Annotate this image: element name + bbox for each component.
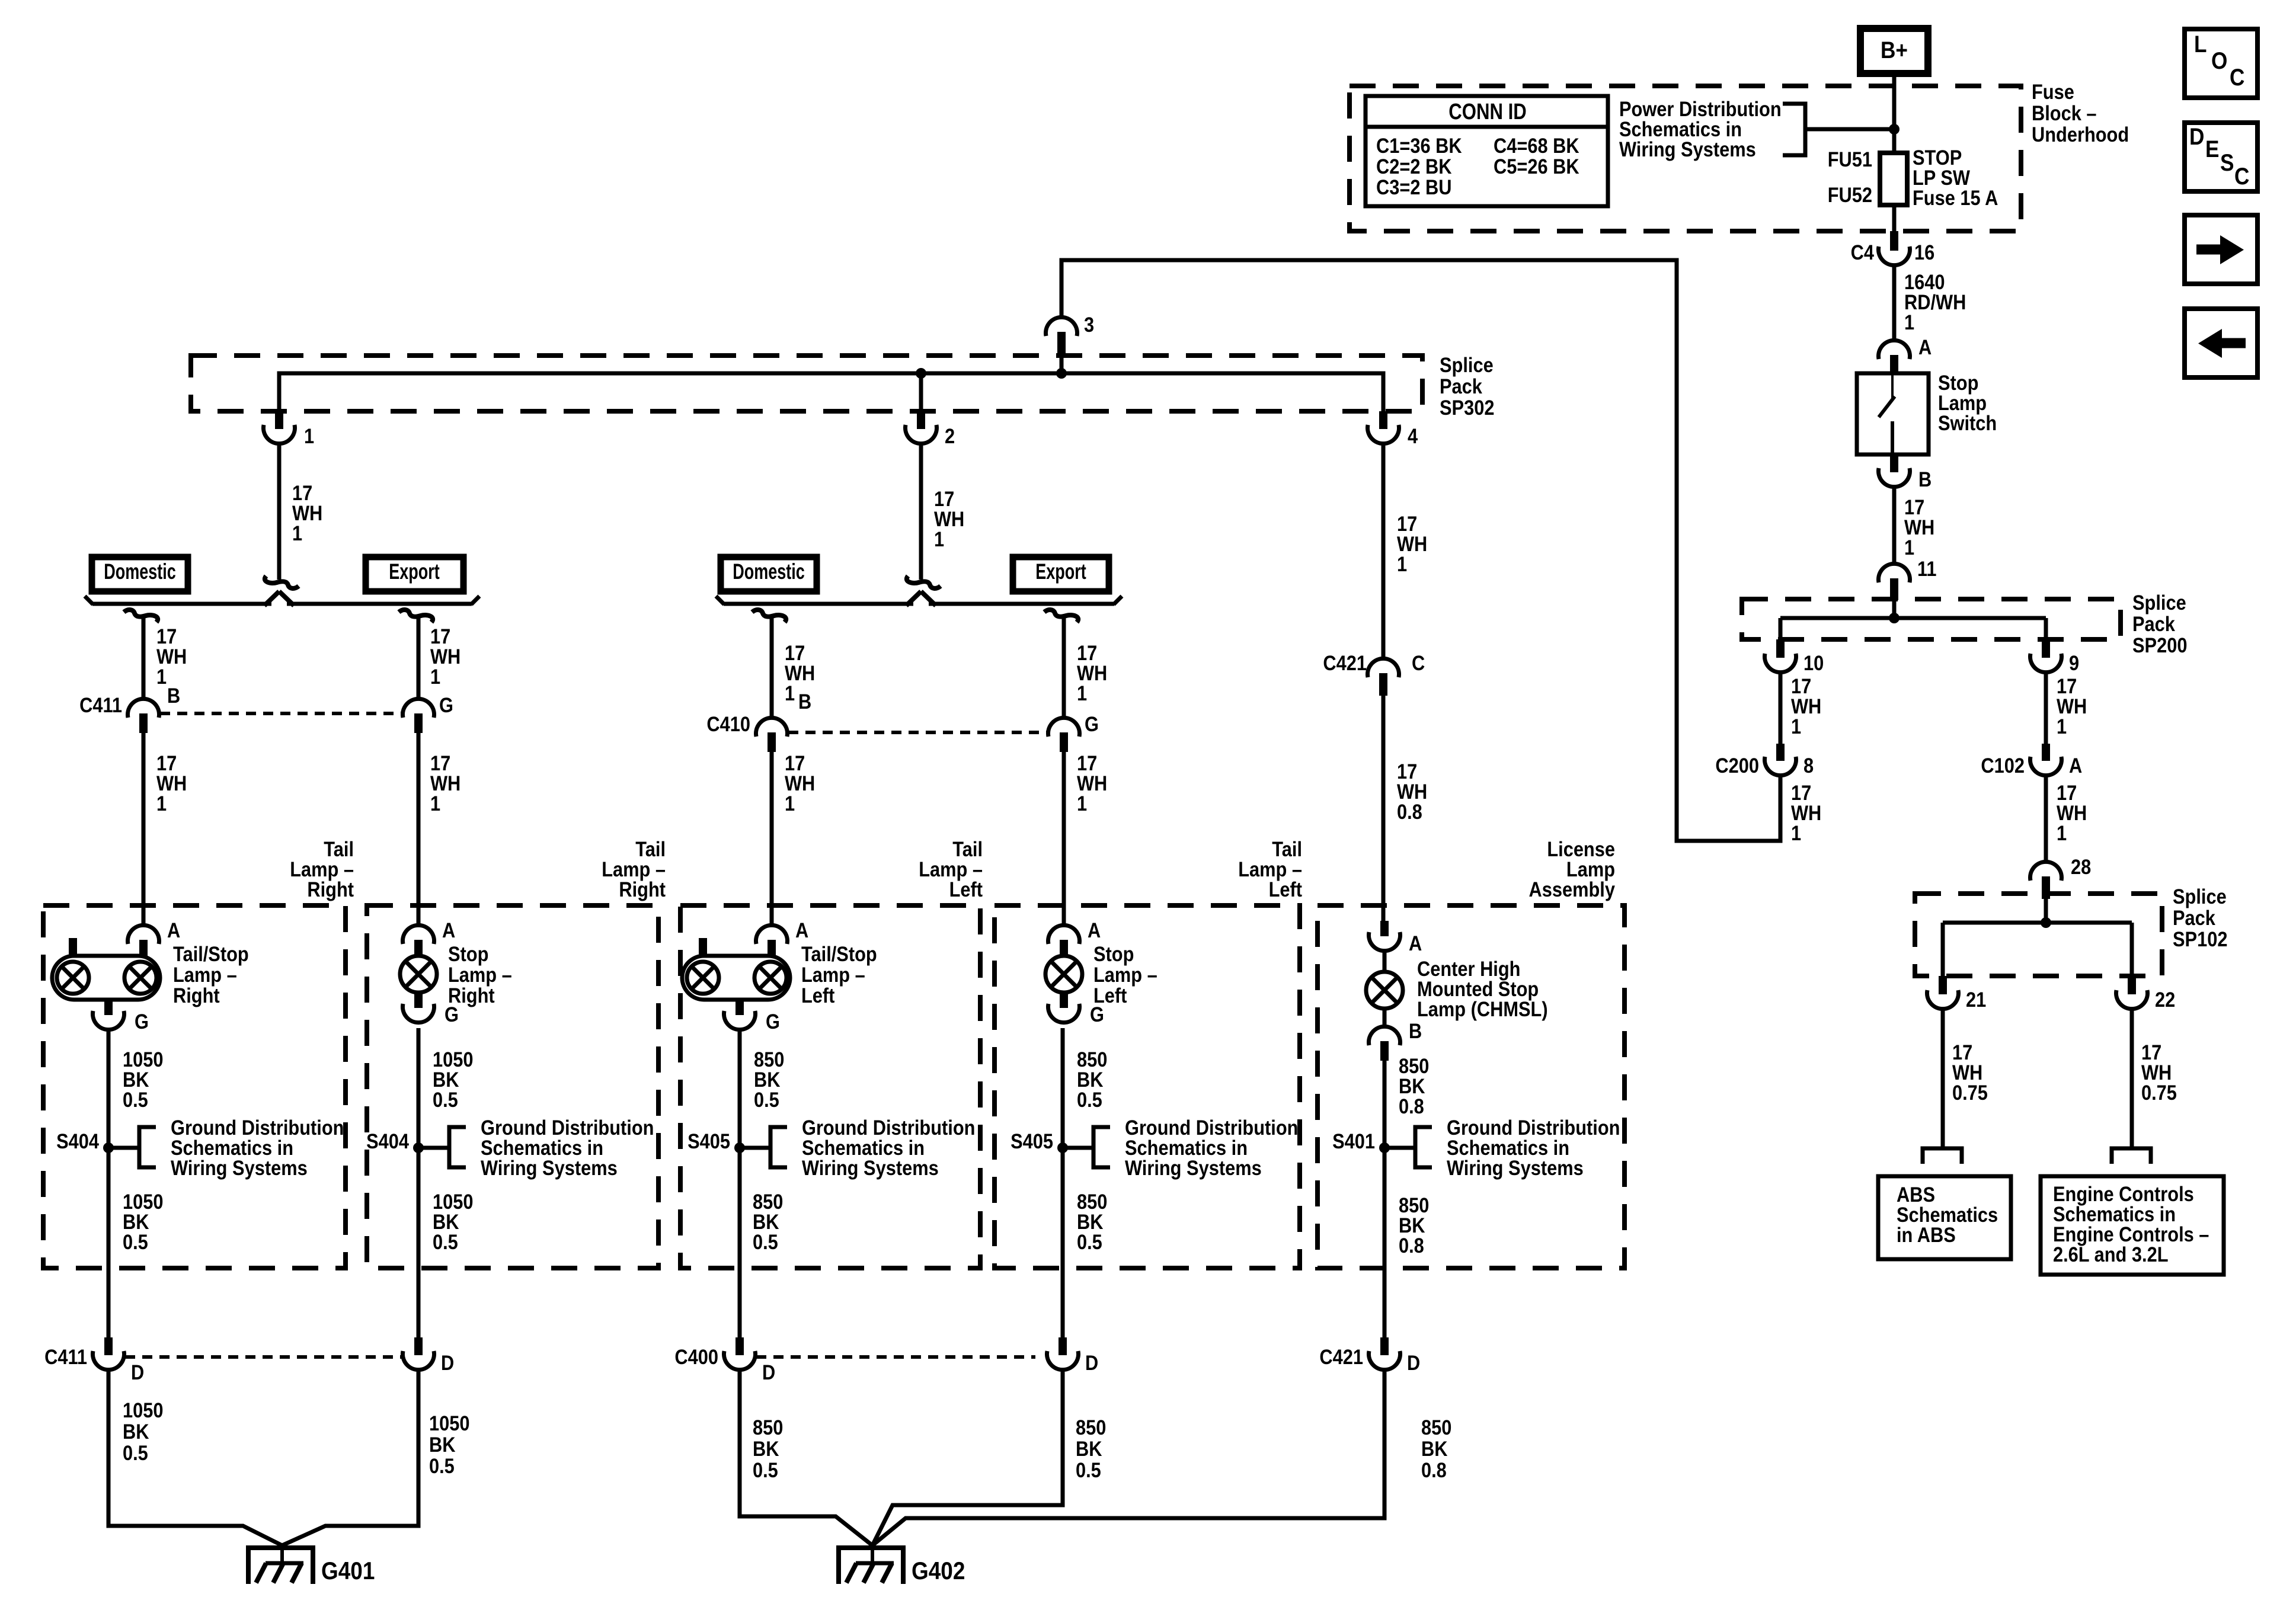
label FU51 — [1828, 148, 1872, 171]
label 17 WH 1 switch output — [1904, 495, 1934, 559]
wire C421 to CHMSL — [1382, 696, 1386, 922]
connector 28 into SP102 — [2030, 862, 2062, 899]
svg-text:BK: BK — [1421, 1437, 1448, 1460]
svg-text:Domestic: Domestic — [733, 559, 805, 584]
svg-text:1: 1 — [934, 527, 944, 550]
label 17 WH 1 below C410 B — [785, 751, 815, 815]
label 850 BK 0.8 lower box5 — [1399, 1193, 1429, 1257]
svg-text:1: 1 — [2057, 715, 2067, 738]
dual filament bulb tail/stop lamp right — [52, 956, 160, 1000]
wire domestic1 to C411 B — [142, 617, 146, 699]
connector A of stop lamp right — [403, 925, 434, 956]
stub terminal of tail/stop lamp left — [699, 938, 707, 956]
curl wire 1 end — [265, 576, 299, 588]
svg-text:0.5: 0.5 — [1077, 1088, 1102, 1111]
tab to engine controls schematics — [2112, 1148, 2151, 1164]
svg-text:Block –: Block – — [2032, 101, 2097, 124]
connector D export left — [1047, 1337, 1079, 1370]
connector C200 pin 8 — [1765, 744, 1796, 776]
svg-text:A: A — [1088, 918, 1101, 942]
hook wire export 1 — [399, 610, 433, 622]
label B C410 — [798, 690, 811, 713]
license lamp assembly dashed box — [1318, 905, 1625, 1268]
svg-text:BK: BK — [1076, 1437, 1102, 1460]
svg-text:G: G — [439, 693, 453, 716]
dashed link C411 D — [125, 1355, 404, 1359]
svg-text:S: S — [2220, 149, 2234, 176]
connector 3 into SP302 — [1046, 317, 1077, 373]
label 17 WH 1 ckt10 — [1791, 674, 1821, 738]
legend DESC box — [2185, 123, 2257, 191]
svg-text:Right: Right — [307, 878, 354, 901]
svg-text:Tail/Stop: Tail/Stop — [801, 942, 877, 965]
label G lamp stop lamp left — [1090, 1003, 1104, 1026]
label Engine Controls Schematics — [2053, 1182, 2209, 1266]
splice S405 — [1057, 1127, 1110, 1167]
alternative brace pair 2 — [716, 591, 1122, 606]
svg-text:C4: C4 — [1851, 241, 1875, 264]
wire box1 to C411 D — [107, 1148, 111, 1337]
label 17 WH 1 ckt4 — [1397, 512, 1427, 575]
label Fuse Block - Underhood — [2032, 80, 2129, 146]
splice pack SP200 dashed box — [1742, 599, 2121, 639]
svg-text:1: 1 — [156, 792, 167, 815]
connector A of stop lamp switch — [1879, 340, 1910, 373]
svg-text:SP200: SP200 — [2132, 633, 2187, 657]
dashed link C410 — [788, 731, 1047, 734]
label ABS Schematics in ABS — [1897, 1183, 1998, 1246]
label 11 — [1917, 557, 1937, 580]
label 21 — [1966, 988, 1986, 1011]
label G C411 — [439, 693, 453, 716]
connector C411 cavity D — [93, 1337, 124, 1370]
label 16 — [1914, 241, 1934, 264]
svg-text:1: 1 — [785, 792, 795, 815]
svg-text:D: D — [2189, 123, 2204, 150]
svg-text:1: 1 — [1077, 681, 1087, 705]
label S405 — [1011, 1129, 1053, 1153]
wire 10 to C200 — [1779, 673, 1783, 744]
svg-text:1: 1 — [1791, 715, 1801, 738]
svg-text:Lamp –: Lamp – — [801, 963, 865, 986]
label A CHMSL — [1409, 932, 1422, 955]
label Splice Pack SP302 — [1440, 353, 1494, 419]
svg-text:1: 1 — [430, 665, 440, 688]
label S405 — [687, 1129, 730, 1153]
svg-text:CONN ID: CONN ID — [1448, 100, 1527, 124]
wire C410 B to tail lamp left — [770, 752, 774, 926]
splice SP200 bus wire — [1780, 600, 2046, 639]
connector C421 cavity D — [1369, 1337, 1400, 1370]
svg-text:16: 16 — [1914, 241, 1934, 264]
svg-text:1: 1 — [304, 424, 314, 447]
svg-text:850: 850 — [1421, 1416, 1451, 1439]
label ground distribution note box2 — [481, 1116, 654, 1179]
svg-text:SP302: SP302 — [1440, 396, 1494, 419]
svg-text:3: 3 — [1084, 313, 1094, 336]
svg-text:C1=36 BK: C1=36 BK — [1376, 134, 1462, 157]
junction node SP302 at 3 — [1056, 368, 1067, 379]
svg-text:1050: 1050 — [123, 1398, 163, 1422]
label C421 C — [1323, 651, 1425, 674]
splice pack SP302 dashed box — [191, 356, 1422, 411]
label G401 — [321, 1557, 375, 1585]
svg-text:Stop: Stop — [448, 942, 488, 965]
wire into splice pack connector 3 — [0, 0, 1, 1]
svg-text:Splice: Splice — [2173, 885, 2227, 908]
label 17 WH 1 dom2 — [785, 641, 815, 705]
connector pin 10 — [1765, 639, 1796, 673]
svg-text:Pack: Pack — [1440, 375, 1483, 398]
svg-text:G: G — [135, 1010, 149, 1033]
svg-text:C411: C411 — [44, 1345, 87, 1368]
label A tail/stop lamp left — [795, 918, 808, 942]
connector A of CHMSL — [1369, 921, 1400, 951]
wire 21 to ABS — [1941, 1009, 1945, 1148]
connector D export right — [403, 1337, 434, 1370]
svg-text:C411: C411 — [79, 693, 122, 716]
connector pin 2 — [906, 411, 937, 444]
svg-text:S401: S401 — [1332, 1129, 1375, 1153]
label D exp left — [1085, 1351, 1098, 1374]
wire 2 to brace — [919, 444, 923, 580]
label name stop lamp right — [448, 942, 512, 1007]
label B CHMSL — [1409, 1019, 1422, 1042]
wire box1 lamp to splice — [107, 1028, 111, 1148]
svg-text:C102: C102 — [1981, 754, 2025, 777]
svg-text:Wiring Systems: Wiring Systems — [1619, 137, 1756, 161]
svg-text:A: A — [795, 918, 808, 942]
label 17 WH 1 below C411 B — [156, 751, 187, 815]
svg-text:0.75: 0.75 — [2141, 1081, 2177, 1104]
fuse block dashed box — [1350, 86, 2021, 231]
svg-text:B+: B+ — [1881, 37, 1908, 63]
label C411 — [79, 693, 122, 716]
label Splice Pack SP200 — [2132, 591, 2187, 657]
bulb stop lamp right — [400, 956, 437, 993]
svg-text:G401: G401 — [321, 1557, 375, 1585]
label Tail Lamp Right 2 — [602, 837, 666, 901]
wire junction to power distribution bracket — [1805, 127, 1894, 132]
svg-text:Wiring Systems: Wiring Systems — [1447, 1156, 1584, 1179]
label Center High Mounted Stop Lamp — [1417, 957, 1548, 1020]
svg-text:1: 1 — [1904, 536, 1914, 559]
svg-text:B: B — [167, 684, 180, 707]
connector pin 4 — [1368, 411, 1399, 444]
table row C1=36 BK — [1376, 134, 1462, 157]
svg-text:Lamp –: Lamp – — [448, 963, 512, 986]
label 1640 RD/WH 1 — [1904, 270, 1966, 334]
svg-text:B: B — [1409, 1019, 1422, 1042]
svg-text:0.8: 0.8 — [1399, 1234, 1424, 1257]
label 17 WH 1 ckt8 — [1791, 781, 1821, 844]
svg-text:D: D — [441, 1351, 454, 1374]
svg-text:G: G — [1090, 1003, 1104, 1026]
legend forward arrow box — [2185, 215, 2257, 284]
svg-text:G: G — [766, 1010, 780, 1033]
svg-text:8: 8 — [1803, 754, 1814, 777]
label Tail Lamp Right 1 — [290, 837, 354, 901]
svg-text:0.5: 0.5 — [433, 1230, 458, 1253]
svg-text:Assembly: Assembly — [1529, 878, 1616, 901]
connector pin 9 — [2030, 639, 2062, 673]
label D c400 — [762, 1361, 775, 1384]
label ground distribution note box1 — [171, 1116, 344, 1179]
svg-text:1: 1 — [1077, 792, 1087, 815]
label 8 — [1803, 754, 1814, 777]
label A — [1918, 335, 1932, 359]
connector G of stop lamp left — [1048, 993, 1080, 1023]
label B — [1918, 468, 1932, 491]
junction node on B+ feed — [1889, 124, 1900, 135]
connector G of tail/stop lamp right — [93, 1000, 124, 1030]
svg-text:Lamp –: Lamp – — [173, 963, 237, 986]
svg-text:28: 28 — [2071, 855, 2091, 878]
connector C411 cavity B — [128, 699, 159, 733]
svg-text:1: 1 — [2057, 821, 2067, 844]
wire box5 to C421 D — [1383, 1148, 1387, 1337]
option box Export 1 — [366, 557, 463, 591]
connector A of tail/stop lamp left — [756, 925, 788, 956]
svg-text:0.5: 0.5 — [433, 1088, 458, 1111]
label G lamp stop lamp right — [445, 1003, 459, 1026]
svg-text:4: 4 — [1408, 424, 1418, 447]
CONN ID table — [1366, 96, 1608, 206]
label ground distribution note box3 — [802, 1116, 975, 1179]
svg-text:0.5: 0.5 — [429, 1454, 455, 1477]
wire C411 G to stop lamp right — [417, 733, 421, 926]
splice S401 — [1379, 1127, 1432, 1167]
bracket to Power Distribution note — [1783, 104, 1805, 155]
svg-text:C: C — [2234, 163, 2249, 190]
connector C4 pin 16 — [1879, 231, 1910, 265]
svg-text:11: 11 — [1917, 557, 1937, 580]
battery feed B+ terminal — [1860, 28, 1928, 73]
label name stop lamp left — [1093, 942, 1157, 1007]
label Stop Lamp Switch — [1938, 371, 1997, 434]
label C411 D — [44, 1345, 87, 1368]
svg-text:0.5: 0.5 — [1077, 1230, 1102, 1253]
CHMSL bulb — [1366, 972, 1403, 1009]
wire switch B to splice pack — [1892, 487, 1897, 564]
ground G402 — [839, 1545, 903, 1584]
svg-text:Switch: Switch — [1938, 411, 1997, 434]
label Tail Lamp Left 2 — [1238, 837, 1302, 901]
label 17 WH 0.75 ckt21 — [1952, 1041, 1988, 1104]
svg-text:Left: Left — [801, 984, 834, 1007]
label G402 — [912, 1557, 965, 1585]
wire C411 B to tail lamp right — [142, 733, 146, 926]
label name tail/stop lamp left — [801, 942, 877, 1007]
wire 1 to brace — [277, 444, 282, 580]
svg-text:C421: C421 — [1319, 1345, 1363, 1368]
svg-text:0.8: 0.8 — [1399, 1094, 1424, 1118]
label 2 — [945, 424, 955, 447]
svg-text:C: C — [2230, 64, 2244, 91]
svg-text:BK: BK — [753, 1437, 779, 1460]
table row C3=2 BU — [1376, 175, 1451, 199]
tail lamp left export dashed box — [994, 905, 1300, 1268]
svg-text:D: D — [1407, 1351, 1420, 1374]
engine controls schematics box — [2041, 1176, 2224, 1275]
svg-text:Wiring Systems: Wiring Systems — [481, 1156, 618, 1179]
svg-text:Wiring Systems: Wiring Systems — [1125, 1156, 1262, 1179]
label ground distribution note box5 — [1447, 1116, 1620, 1179]
svg-text:C421: C421 — [1323, 651, 1367, 674]
junction node SP200 — [1889, 613, 1900, 623]
svg-text:1: 1 — [1904, 311, 1914, 334]
wire C411 D to G401 — [108, 1370, 282, 1545]
tail lamp left domestic dashed box — [680, 905, 980, 1268]
svg-text:S405: S405 — [687, 1129, 730, 1153]
table row C2=2 BK — [1376, 155, 1452, 178]
svg-text:C3=2 BU: C3=2 BU — [1376, 175, 1451, 199]
connector pin 1 — [264, 411, 295, 444]
svg-text:1050: 1050 — [429, 1411, 469, 1435]
label 17 WH 0.8 — [1397, 760, 1427, 823]
svg-text:B: B — [798, 690, 811, 713]
svg-text:0.5: 0.5 — [753, 1230, 778, 1253]
wire C421 D to G402 — [872, 1370, 1384, 1545]
svg-text:Export: Export — [389, 559, 440, 584]
wire 1640 RD/WH — [1892, 265, 1897, 341]
svg-text:0.5: 0.5 — [123, 1230, 148, 1253]
label 17 WH 1 ckt A — [2057, 781, 2087, 844]
svg-text:Tail/Stop: Tail/Stop — [173, 942, 249, 965]
svg-text:in ABS: in ABS — [1897, 1223, 1956, 1246]
svg-text:Left: Left — [949, 878, 983, 901]
wire D to G401 — [282, 1370, 418, 1545]
wire C410 G to stop lamp left — [1062, 752, 1066, 926]
wire B+ to fuse FU51 — [1892, 73, 1897, 153]
label name tail/stop lamp right — [173, 942, 249, 1007]
label G lamp tail/stop lamp right — [135, 1010, 149, 1033]
svg-text:C410: C410 — [706, 712, 750, 735]
label 17 WH 1 ckt9 — [2057, 674, 2087, 738]
label C200 — [1715, 754, 1759, 777]
label Splice Pack SP102 — [2173, 885, 2227, 950]
label G C410 — [1085, 712, 1099, 735]
svg-text:O: O — [2211, 47, 2227, 74]
svg-text:Splice: Splice — [2132, 591, 2186, 614]
connector C411 cavity G — [403, 699, 434, 733]
svg-text:S405: S405 — [1011, 1129, 1053, 1153]
wire box4 to D — [1061, 1148, 1065, 1337]
svg-text:S404: S404 — [366, 1129, 410, 1153]
label STOP LP SW Fuse 15 A — [1913, 146, 1998, 209]
connector B of CHMSL — [1369, 1009, 1400, 1061]
option box Export 2 — [1013, 557, 1109, 591]
label 17 WH 1 ckt2 — [934, 487, 964, 550]
connector C410 cavity G — [1048, 718, 1080, 752]
svg-text:C200: C200 — [1715, 754, 1759, 777]
wire box4 lamp to splice — [1061, 1028, 1065, 1148]
label 3 — [1084, 313, 1094, 336]
splice S404 — [413, 1127, 466, 1167]
label 850 BK 0.5 bottom box3 — [753, 1416, 783, 1481]
svg-text:Right: Right — [173, 984, 220, 1007]
label C400 — [674, 1345, 718, 1368]
tail lamp right domestic dashed box — [43, 905, 346, 1268]
label Power Distribution Schematics in Wiring Systems — [1619, 97, 1782, 161]
svg-text:C2=2 BK: C2=2 BK — [1376, 155, 1452, 178]
svg-text:L: L — [2194, 31, 2207, 57]
connector pin 22 — [2116, 976, 2148, 1009]
label 9 — [2069, 651, 2079, 674]
splice S405 — [734, 1127, 787, 1167]
label 10 — [1803, 651, 1824, 674]
hook wire domestic 1 — [124, 610, 158, 622]
stub terminal of tail/stop lamp right — [69, 938, 77, 956]
label l — [754, 1048, 784, 1111]
svg-text:850: 850 — [753, 1416, 783, 1439]
svg-text:C5=26 BK: C5=26 BK — [1494, 155, 1579, 178]
label D c411 — [131, 1361, 144, 1384]
connector pin 21 — [1927, 976, 1959, 1009]
label 1050 BK 0.5 lower box2 — [433, 1190, 473, 1253]
svg-text:Lamp (CHMSL): Lamp (CHMSL) — [1417, 997, 1548, 1020]
svg-text:D: D — [762, 1361, 775, 1384]
connector C102 pin A — [2030, 744, 2062, 776]
label A tail/stop lamp right — [167, 918, 180, 942]
svg-text:C400: C400 — [674, 1345, 718, 1368]
svg-text:A: A — [2069, 754, 2082, 777]
svg-text:0.5: 0.5 — [123, 1088, 148, 1111]
svg-text:Splice: Splice — [1440, 353, 1494, 376]
wire D to G402 — [872, 1370, 1063, 1545]
wire C102 to 28 — [2044, 776, 2048, 862]
dashed link C411 — [160, 712, 403, 715]
svg-text:0.5: 0.5 — [753, 1458, 778, 1481]
svg-text:A: A — [442, 918, 455, 942]
tab to ABS schematics — [1923, 1148, 1962, 1164]
splice pack SP102 dashed box — [1915, 894, 2162, 976]
curl wire 2 end — [907, 576, 941, 588]
svg-text:22: 22 — [2155, 988, 2175, 1011]
junction node SP302 at 2 — [916, 368, 926, 379]
wire export2 to C410 G — [1062, 617, 1066, 718]
svg-text:1: 1 — [156, 665, 167, 688]
label l — [433, 1048, 473, 1111]
svg-text:1: 1 — [785, 681, 795, 705]
label 17 WH 1 exp2 — [1077, 641, 1107, 705]
legend LOC box — [2185, 29, 2257, 98]
label 850 BK 0.8 bottom box5 — [1421, 1416, 1451, 1481]
svg-text:A: A — [1409, 932, 1422, 955]
svg-text:0.8: 0.8 — [1397, 800, 1422, 823]
label l — [1077, 1048, 1107, 1111]
label D exp right — [441, 1351, 454, 1374]
label 17 WH 0.75 ckt22 — [2141, 1041, 2177, 1104]
connector C400 cavity D — [724, 1337, 756, 1370]
option box Domestic 2 — [721, 557, 817, 591]
svg-text:E: E — [2205, 136, 2219, 162]
label 850 BK 0.8 upper — [1399, 1054, 1429, 1118]
svg-text:0.5: 0.5 — [754, 1088, 779, 1111]
svg-text:G402: G402 — [912, 1557, 965, 1585]
svg-text:0.75: 0.75 — [1952, 1081, 1988, 1104]
label Tail Lamp Left 1 — [919, 837, 983, 901]
connector 11 into SP200 — [1879, 564, 1910, 600]
label S401 — [1332, 1129, 1375, 1153]
label 1 — [304, 424, 314, 447]
connector B of stop lamp switch — [1879, 454, 1910, 487]
label 850 BK 0.5 bottom box4 — [1076, 1416, 1106, 1481]
label 4 — [1408, 424, 1418, 447]
hook wire export 2 — [1044, 610, 1078, 622]
wire 22 to engine controls — [2130, 1009, 2134, 1148]
svg-text:Underhood: Underhood — [2032, 123, 2129, 146]
